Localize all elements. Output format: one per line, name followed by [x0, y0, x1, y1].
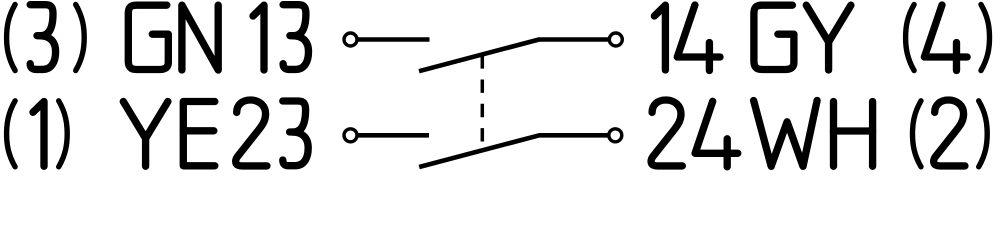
wire color code letter W of WH (white) — [754, 101, 818, 167]
wire from terminal 13 — [357, 37, 430, 42]
label ")" of terminal (3) — [76, 5, 85, 71]
wire color code letter Y of YE (yellow) — [123, 102, 168, 167]
contact number digit 2 of 24 — [651, 100, 682, 166]
label "4" of terminal (4) — [924, 5, 967, 71]
switch blade and wire to terminal 24 (bottom pole, shown open) — [419, 135, 608, 167]
label "1" of terminal (1) — [33, 102, 44, 167]
label ")" of terminal (2) — [979, 101, 988, 167]
terminal circle, contact 23 (bottom left) — [344, 129, 357, 142]
wire from terminal 23 — [357, 133, 429, 138]
circuit schematic: two-pole switch (contacts 13-14 and 23-24) with terminal labels — [0, 0, 1000, 177]
contact number digit 4 of 24 — [695, 101, 738, 167]
switch blade and wire to terminal 14 (top pole, shown open) — [419, 40, 609, 72]
contact number digit 3 of 13 — [283, 5, 308, 70]
terminal circle, contact 14 (top right) — [609, 33, 622, 46]
label "2" of terminal (2) — [934, 100, 965, 166]
contact number digit 4 of 14 — [677, 5, 720, 71]
contact number digit 2 of 23 — [236, 100, 267, 166]
label "(" of terminal (3) — [7, 5, 16, 71]
label "3" of terminal (3) — [30, 5, 55, 70]
contact number digit 1 of 13 — [253, 5, 264, 70]
wire color code letter E of YE (yellow) — [183, 102, 215, 166]
wire color code letter H of WH (white) — [834, 102, 873, 167]
label "(" of terminal (1) — [7, 101, 16, 167]
contact number digit 1 of 14 — [654, 5, 665, 70]
label "(" of terminal (2) — [913, 101, 922, 167]
wire color code letter N of GN (green) — [182, 5, 218, 70]
mechanical coupling dashed link between the two poles — [481, 55, 485, 151]
contact number digit 3 of 23 — [283, 101, 308, 166]
label "(" of terminal (4) — [906, 5, 915, 71]
terminal circle, contact 24 (bottom right) — [609, 129, 622, 142]
wire color code letter Y of GY (grey) — [806, 5, 851, 70]
label ")" of terminal (4) — [981, 5, 990, 71]
terminal circle, contact 13 (top left) — [344, 33, 357, 46]
wire color code letter G of GN (green) — [128, 5, 168, 69]
wire color code letter G of GY (grey) — [754, 5, 794, 69]
label ")" of terminal (1) — [59, 101, 67, 167]
